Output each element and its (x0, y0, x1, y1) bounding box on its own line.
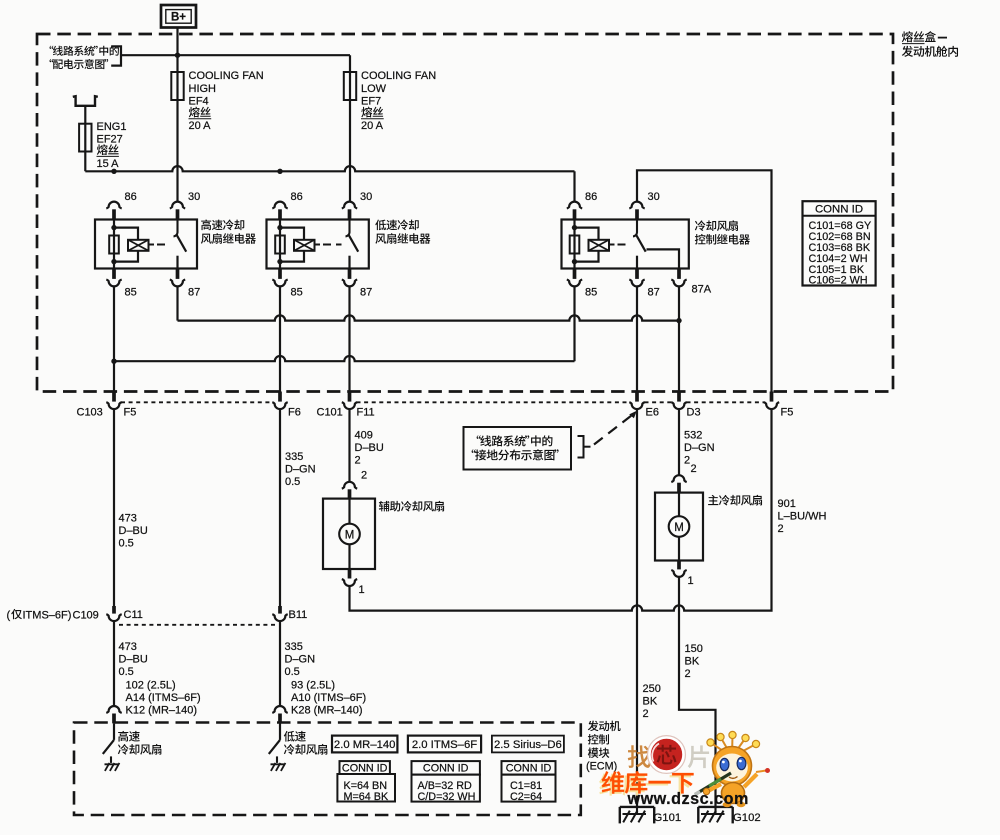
svg-text:150: 150 (685, 643, 703, 655)
svg-text:C/D=32 WH: C/D=32 WH (418, 791, 476, 803)
battery feed terminal B+ (161, 5, 196, 28)
pin label 87 (relay K1) (188, 286, 200, 298)
svg-text:C11: C11 (124, 609, 143, 621)
connector terminal, relay K3 pin 30 (629, 202, 644, 220)
ground symbol, high speed driver (105, 763, 120, 771)
pin label 86 (relay K2) (291, 191, 303, 203)
connector terminal, relay K2 pin 85 (272, 269, 287, 287)
ground G101 (620, 807, 654, 824)
wire: node B line from K1-85 to K3-85 (hops K2 wires) (114, 356, 575, 361)
wire: relay K2 pin 87 down to connector F11 (348, 286, 350, 391)
fuse EF4 COOLING FAN HIGH 20A (171, 72, 183, 100)
wire 335 D-GN 0.5 from C103 F6 to B11 (279, 410, 281, 606)
pin value labels: ECM low speed input (291, 679, 366, 716)
wire 532 D-GN 2 from C101 D3 to main fan pin 2 (678, 410, 680, 475)
conn id table ITMS-6F (412, 761, 480, 803)
svg-text:K28 (MR–140): K28 (MR–140) (291, 704, 363, 716)
svg-text:EF27: EF27 (97, 133, 123, 145)
ECM low speed fan driver switch (269, 723, 280, 763)
junction: relay K3 (control) coil top (572, 225, 577, 230)
motor M2 main cooling fan (669, 516, 690, 537)
svg-text:86: 86 (291, 191, 303, 203)
svg-text:CONN ID: CONN ID (506, 762, 552, 774)
connector group dashed link C101 (357, 401, 765, 403)
svg-text:C106=2 WH: C106=2 WH (809, 275, 868, 287)
relay K1 (high speed) suppression element (128, 240, 149, 251)
svg-text:M: M (345, 530, 355, 542)
svg-text:87: 87 (648, 286, 660, 298)
relay K3 (control) pin 87 lead (636, 256, 638, 269)
connector terminal, C109 pin C11 (106, 606, 121, 621)
relay K1 (high speed) box (95, 220, 197, 269)
value label: wire 409 D-BU 2 (355, 429, 384, 466)
svg-text:D–BU: D–BU (119, 654, 148, 666)
svg-text:0.5: 0.5 (119, 537, 134, 549)
relay K2 (low speed) coil (275, 236, 285, 254)
wire: EF7 feed drop (349, 55, 351, 201)
svg-text:A/B=32 RD: A/B=32 RD (418, 780, 473, 792)
svg-text:D3: D3 (687, 406, 701, 418)
fuse ENG1 EF27 15A (79, 124, 91, 152)
relay K1 (high speed) switch blade (177, 235, 186, 251)
svg-text:G102: G102 (733, 812, 761, 824)
motor M1 auxiliary cooling fan (339, 524, 360, 545)
svg-text:0.5: 0.5 (285, 476, 300, 488)
svg-text:C1=81: C1=81 (510, 780, 542, 792)
wire: relay K3 pin 85 down to node B (573, 286, 575, 361)
wire: node A line from K1-87 to K3-87A (hops K2 and K3 wires) (178, 315, 680, 320)
svg-text:30: 30 (188, 191, 200, 203)
wire: distribution line from bracket to EF4/EF7 feeds (121, 54, 350, 56)
variant box 2.0 MR-140 (332, 736, 397, 753)
relay K1 (high speed) coil wire 86-85 (113, 220, 115, 269)
svg-text:2: 2 (643, 708, 649, 720)
svg-text:K12 (MR–140): K12 (MR–140) (126, 704, 198, 716)
svg-text:www.dzsc.com: www.dzsc.com (627, 790, 749, 808)
svg-text:102 (2.5L): 102 (2.5L) (126, 679, 176, 691)
svg-text:D–GN: D–GN (285, 654, 316, 666)
note bracket: power distribution schematic reference (50, 46, 121, 69)
svg-text:COOLING FAN: COOLING FAN (361, 70, 436, 82)
connector terminal, C101 pin E6 (629, 392, 644, 410)
svg-text:C109: C109 (73, 609, 99, 621)
svg-text:M=64 BK: M=64 BK (344, 791, 390, 803)
connector terminal, C103 pin F6 (272, 392, 287, 410)
svg-text:D–BU: D–BU (355, 442, 384, 454)
relay K3 (control) switch common from pin 30 (633, 220, 637, 237)
value label: wire 532 D-GN 2 (684, 429, 715, 466)
junction: B+ feed node (175, 53, 180, 58)
relay K3 (control) actuation dashed link (610, 244, 630, 246)
wire 473 D-BU 0.5 from C103 F5 to C109 C11 (113, 410, 115, 606)
ground symbol, low speed driver (271, 763, 286, 771)
watermark logo pian (chip) (688, 745, 709, 768)
junction: relay K1 (high speed) coil top (111, 225, 116, 230)
svg-text:2: 2 (691, 463, 697, 475)
label: engine control module (ECM) (586, 721, 621, 773)
svg-text:86: 86 (125, 191, 137, 203)
pin label 2 (main fan) (691, 463, 697, 475)
main fan motor wire (678, 493, 680, 561)
relay K2 (low speed) suppression element (294, 240, 315, 251)
svg-text:ENG1: ENG1 (97, 121, 127, 133)
relay K1 (high speed) actuation dashed link (149, 244, 170, 246)
svg-text:0.5: 0.5 (119, 666, 134, 678)
pin label E6 (C101) (646, 406, 659, 418)
ground G102 (698, 807, 732, 824)
svg-text:F5: F5 (781, 406, 794, 418)
value label: wire 335 D-GN 0.5 (lower) (285, 641, 316, 678)
connector terminal, relay K1 pin 87 (170, 269, 185, 287)
svg-text:2: 2 (684, 454, 690, 466)
svg-text:D–GN: D–GN (684, 442, 715, 454)
label: relay K3 cooling fan control relay (695, 220, 750, 244)
label: relay K1 high speed cooling fan relay (201, 219, 256, 243)
svg-text:2: 2 (361, 470, 367, 482)
svg-text:2: 2 (778, 523, 784, 535)
connector terminal, auxiliary fan pin 1 (342, 569, 357, 586)
pin label 87A (relay K3) (692, 284, 712, 296)
connector terminal, auxiliary fan pin 2 (342, 482, 357, 499)
ECM dashed box (74, 723, 581, 816)
pin label F5 right (C101) (781, 406, 794, 418)
value label: wire 901 L-BU/WH 2 (778, 498, 827, 535)
connector group dashed link C103 (121, 401, 273, 403)
wire: bus drop to relay K3 pin 86 (573, 171, 575, 201)
label: ground G101 (654, 812, 682, 824)
junction: relay K3 (control) coil bottom (572, 259, 577, 264)
connector group dashed link C109 (119, 624, 275, 626)
pin label 86 (relay K3) (585, 191, 597, 203)
pin label 2 (auxiliary fan) (361, 470, 367, 482)
label: connector C103 (77, 406, 103, 418)
svg-text:2.0 MR–140: 2.0 MR–140 (334, 739, 396, 751)
connector terminal, relay K3 pin 87 (629, 269, 644, 287)
wire 473 D-BU 0.5 from C11 to ECM pin (113, 621, 115, 706)
connector terminal, relay K1 pin 85 (106, 269, 121, 287)
label: fuse EF7 (361, 70, 436, 132)
pin label F11 (C101) (357, 406, 375, 418)
watermark weikuyixia text (599, 771, 693, 795)
svg-text:LOW: LOW (361, 83, 387, 95)
pin label 85 (relay K1) (125, 286, 137, 298)
ECM high speed fan driver switch (103, 723, 114, 763)
wire: relay K3 pin 30 to wire 901 feed line (637, 170, 772, 391)
pin value labels: ECM high speed input (126, 679, 201, 716)
connector terminal, C103 pin F5 (106, 392, 121, 410)
wire: ENG1 fuse branch (84, 106, 86, 172)
connector terminal, C101 pin F5 (764, 392, 779, 410)
pin label 85 (relay K2) (291, 286, 303, 298)
svg-text:B+: B+ (171, 12, 186, 24)
svg-text:CONN ID: CONN ID (342, 762, 388, 774)
svg-text:EF7: EF7 (361, 95, 381, 107)
svg-text:D–GN: D–GN (285, 463, 316, 475)
relay K3 (control) box (562, 220, 689, 269)
connector terminal, relay K3 pin 87A (671, 269, 686, 287)
svg-text:0.5: 0.5 (285, 666, 300, 678)
svg-text:HIGH: HIGH (189, 83, 217, 95)
label: auxiliary cooling fan (379, 501, 444, 512)
svg-text:A10 (ITMS–6F): A10 (ITMS–6F) (291, 692, 366, 704)
relay K2 (low speed) coil wire 86-85 (279, 220, 281, 269)
svg-text:C2=64: C2=64 (510, 791, 542, 803)
relay K2 (low speed) switch common from pin 30 (346, 220, 350, 237)
value label: wire 335 D-GN 0.5 (upper) (285, 451, 316, 488)
relay K1 (high speed) switch common from pin 30 (174, 220, 178, 237)
relay K2 (low speed) switch blade (349, 235, 358, 251)
terminal stub above fuse ENG1 (73, 96, 98, 106)
pin label F5 (C103) (124, 406, 137, 418)
svg-text:532: 532 (684, 429, 702, 441)
label: fuse EF4 (189, 70, 264, 132)
relay K1 (high speed) coil (109, 236, 119, 254)
pin label 86 (relay K1) (125, 191, 137, 203)
svg-text:93 (2.5L): 93 (2.5L) (291, 679, 335, 691)
junction: relay K2 (low speed) coil top (277, 225, 282, 230)
variant box 2.5 Sirius-D6 (492, 736, 564, 753)
svg-text:F5: F5 (124, 406, 137, 418)
svg-text:901: 901 (778, 498, 796, 510)
svg-text:C103: C103 (77, 406, 103, 418)
value label: wire 473 D-BU 0.5 (upper) (119, 512, 148, 549)
svg-text:CONN ID: CONN ID (815, 204, 863, 216)
connector terminal, C101 pin F11 (342, 392, 357, 410)
label: fuse ENG1 EF27 (97, 121, 127, 170)
svg-text:85: 85 (125, 286, 137, 298)
svg-text:F6: F6 (288, 406, 301, 418)
pin label 30 (relay K2) (360, 191, 372, 203)
connector terminal, C101 pin D3 (671, 392, 686, 410)
wire 409 D-BU 2 from C101 F11 to auxiliary fan pin 2 (348, 410, 350, 482)
pin label C11 (124, 609, 143, 621)
watermark logo zhao (find) (628, 745, 651, 768)
svg-text:473: 473 (119, 641, 137, 653)
wire 901: auxiliary fan pin 1 to C101 F5 (hops E6 and main fan wires) (350, 410, 772, 611)
wire: B+ down through fuse EF4 to relay K1 pin 30 (176, 28, 178, 202)
label: connector C109 (ITMS-6F only) (7, 609, 99, 621)
wire 250 BK 2 from C101 E6 to ground G101 (636, 410, 638, 807)
svg-text:30: 30 (648, 191, 660, 203)
svg-text:85: 85 (291, 286, 303, 298)
wire: relay K1 pin 85 down to connector C103 F5 (113, 286, 115, 391)
pin label 85 (relay K3) (585, 286, 597, 298)
svg-text:87: 87 (188, 286, 200, 298)
note bracket and dashed pointer to E6 (578, 411, 637, 458)
svg-text:BK: BK (685, 656, 700, 668)
svg-text:F11: F11 (357, 406, 375, 418)
relay K3 (control) suppression element (589, 240, 610, 251)
connector terminal, relay K3 pin 85 (567, 269, 582, 287)
svg-text:M: M (674, 522, 684, 534)
svg-text:CONN ID: CONN ID (423, 762, 469, 774)
label: ground G102 (733, 812, 761, 824)
svg-text:20 A: 20 A (361, 120, 384, 132)
connector terminal, relay K1 pin 86 (106, 202, 121, 220)
svg-text:1: 1 (688, 575, 694, 587)
svg-text:409: 409 (355, 429, 373, 441)
connector terminal, ECM low speed pin (272, 706, 287, 723)
label: low speed cooling fan (ECM driver) (284, 731, 328, 755)
wire 335 D-GN 0.5 from B11 to ECM pin (279, 621, 281, 706)
svg-text:C101: C101 (317, 406, 343, 418)
svg-text:(ECM): (ECM) (586, 760, 617, 772)
connector terminal, relay K2 pin 30 (342, 202, 357, 220)
value label: wire 250 BK 2 (643, 683, 661, 720)
pin label 1 (main fan) (688, 575, 694, 587)
pin label 30 (relay K3) (648, 191, 660, 203)
auxiliary fan motor wire (348, 499, 350, 569)
svg-text:335: 335 (285, 641, 303, 653)
relay K3 (control) coil wire 86-85 (573, 220, 575, 269)
svg-text:87A: 87A (692, 284, 712, 296)
auxiliary cooling fan box (323, 499, 375, 569)
junction: bus to relay K2 pin 86 (277, 169, 282, 174)
svg-text:2: 2 (355, 454, 361, 466)
svg-text:EF4: EF4 (189, 95, 209, 107)
svg-text:86: 86 (585, 191, 597, 203)
connector terminal, relay K2 pin 86 (272, 202, 287, 220)
relay K1 (high speed) coil parallel branch (114, 228, 138, 262)
svg-text:A14 (ITMS–6F): A14 (ITMS–6F) (126, 692, 201, 704)
relay K2 (low speed) box (267, 220, 369, 269)
junction: bus to relay K1 pin 86 (111, 169, 116, 174)
svg-text:D–BU: D–BU (119, 525, 148, 537)
value label: wire 473 D-BU 0.5 (lower) (119, 641, 148, 678)
main cooling fan box (655, 493, 703, 561)
note box: ground distribution schematic reference (464, 427, 572, 470)
label: connector C101 (317, 406, 343, 418)
wire: relay K3 pin 87 down to connector E6 (636, 286, 638, 391)
svg-text:335: 335 (285, 451, 303, 463)
pin label 87 (relay K3) (648, 286, 660, 298)
svg-text:85: 85 (585, 286, 597, 298)
svg-text:20 A: 20 A (189, 120, 212, 132)
svg-text:BK: BK (643, 696, 658, 708)
conn id table Sirius-D6 (502, 761, 556, 803)
relay K3 (control) coil parallel branch (575, 228, 599, 262)
wire 150 BK 2 from main fan pin 1 to ground G102 (679, 577, 716, 807)
svg-text:(: ( (7, 609, 11, 621)
svg-text:2.5 Sirius–D6: 2.5 Sirius–D6 (494, 739, 562, 751)
pin label 87 (relay K2) (360, 286, 372, 298)
conn id table MR-140 (337, 761, 395, 803)
watermark logo red circle chip (648, 736, 686, 774)
junction: relay K2 (low speed) coil bottom (277, 259, 282, 264)
label: high speed cooling fan (ECM driver) (118, 731, 162, 755)
pin label D3 (C101) (687, 406, 701, 418)
wire: relay K2 pin 85 down to connector F6 (279, 286, 281, 391)
connector terminal, main fan pin 1 (671, 561, 686, 577)
svg-text:87: 87 (360, 286, 372, 298)
svg-text:B11: B11 (289, 609, 308, 621)
svg-text:ITMS–6F): ITMS–6F) (23, 609, 72, 621)
relay K3 (control) coil (570, 236, 580, 254)
connector terminal, ECM high speed pin (106, 706, 121, 723)
label: fuse box location (top right) (902, 31, 958, 57)
svg-text:K=64 BN: K=64 BN (344, 780, 388, 792)
variant box 2.0 ITMS-6F (408, 736, 481, 753)
svg-text:L–BU/WH: L–BU/WH (778, 510, 827, 522)
svg-text:473: 473 (119, 512, 137, 524)
svg-text:E6: E6 (646, 406, 659, 418)
svg-text:15 A: 15 A (97, 158, 120, 170)
pin label 30 (relay K1) (188, 191, 200, 203)
label: relay K2 low speed cooling fan relay (375, 220, 430, 244)
relay K3 (control) switch blade (636, 235, 645, 251)
pin label 1 (auxiliary fan) (359, 584, 365, 596)
fuse box dashed border (engine compartment) (37, 34, 893, 392)
junction: relay K1 pin 85 to node B (111, 359, 116, 364)
relay K3 (control) contact to pin 87A (647, 249, 680, 268)
relay K2 (low speed) actuation dashed link (315, 244, 342, 246)
svg-text:250: 250 (643, 683, 661, 695)
value label: wire 150 BK 2 (685, 643, 703, 680)
watermark www.dzsc.com (627, 790, 749, 808)
junction: node A at relay K3 pin 87A wire (676, 318, 681, 323)
connector terminal, relay K2 pin 87 (342, 269, 357, 287)
label: main cooling fan (708, 495, 762, 506)
pin label F6 (C103) (288, 406, 301, 418)
fuse EF7 COOLING FAN LOW 20A (344, 72, 356, 100)
relay K1 (high speed) pin 87 lead (176, 256, 178, 269)
pin label B11 (289, 609, 308, 621)
relay K2 (low speed) coil parallel branch (280, 228, 304, 262)
svg-text:2: 2 (685, 668, 691, 680)
connector ID table (803, 201, 876, 286)
svg-text:2.0 ITMS–6F: 2.0 ITMS–6F (412, 739, 477, 751)
svg-text:30: 30 (360, 191, 372, 203)
wire: relay K3 pin 87A down to connector D3 (678, 286, 680, 391)
relay K2 (low speed) pin 87 lead (348, 256, 350, 269)
wire: main bus to relay coils (hops over EF4/EF7 drops) (85, 166, 574, 171)
svg-text:COOLING FAN: COOLING FAN (189, 70, 264, 82)
wire: relay K1 pin 87 to node A (176, 286, 178, 320)
connector terminal, main fan pin 2 (671, 475, 686, 492)
connector terminal, pin B11 (272, 606, 287, 621)
svg-text:G101: G101 (654, 812, 682, 824)
connector terminal, relay K3 pin 86 (567, 202, 582, 220)
junction: relay K1 (high speed) coil bottom (111, 259, 116, 264)
watermark mascot (695, 731, 770, 807)
svg-text:1: 1 (359, 584, 365, 596)
connector terminal, relay K1 pin 30 (170, 202, 185, 220)
